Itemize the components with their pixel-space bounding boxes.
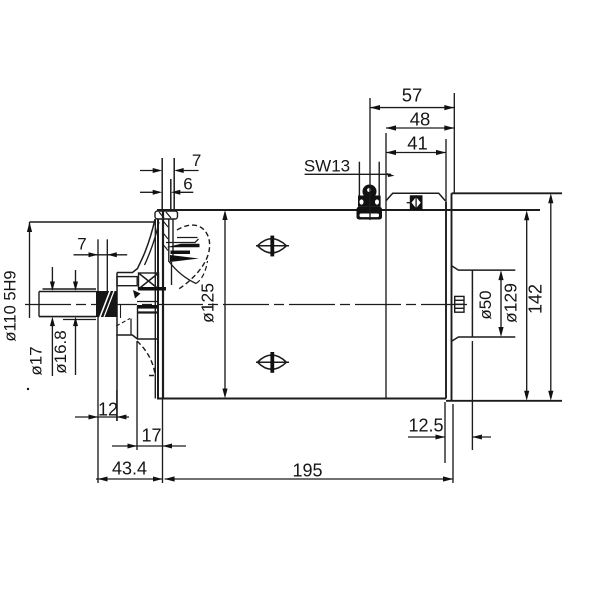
centerline main axis: [25, 304, 473, 306]
threaded block: [96, 291, 117, 317]
flange plate right face: [116, 273, 118, 422]
terminal platform: [386, 193, 445, 200]
dim ø129: [524, 210, 529, 401]
dim 57: [370, 93, 454, 220]
dim 41: [386, 139, 446, 202]
svg-text:57: 57: [402, 85, 423, 106]
bearing seat at body entry: [137, 301, 157, 303]
ø50 boss outline: [452, 266, 515, 270]
key on shaft: [43, 288, 97, 290]
shaft left: [39, 291, 96, 293]
hub step box: [117, 277, 137, 286]
svg-text:ø129: ø129: [501, 283, 521, 323]
hub bore lines: [137, 306, 139, 339]
dim 12.5: [408, 341, 491, 463]
dim 7 left key: [74, 239, 128, 291]
svg-text:12.5: 12.5: [408, 416, 443, 436]
dim 43.4 bottom: [96, 399, 163, 484]
SW13 leader: [305, 173, 391, 175]
svg-text:41: 41: [407, 133, 428, 154]
svg-text:17: 17: [141, 426, 161, 446]
brush bars inside: [177, 237, 198, 239]
dim 195 bottom: [165, 404, 453, 483]
svg-text:ø125: ø125: [198, 283, 218, 323]
dim ø17: [50, 267, 55, 376]
dim ø110 5H9: [27, 222, 32, 318]
bell housing top box: [155, 211, 178, 219]
dim 17 bottom: [112, 341, 186, 450]
phantom flange corner arc: [177, 225, 210, 289]
flange plate top edge + ext: [30, 221, 156, 223]
svg-text:ø110 5H9: ø110 5H9: [2, 270, 20, 341]
dim 6 top: [140, 190, 193, 195]
body right edge joint: [445, 202, 447, 399]
svg-text:7: 7: [77, 235, 86, 254]
terminal stud and nuts SW13: [357, 162, 383, 220]
bell outer profile left: [117, 219, 155, 273]
dim 12 bottom: [75, 317, 129, 483]
screw on platform: [407, 195, 423, 210]
slot on bell top: [161, 158, 163, 210]
svg-text:12: 12: [98, 400, 118, 420]
svg-text:195: 195: [292, 461, 322, 481]
bell bottom outline: [116, 335, 158, 339]
shaft threaded stub right: [455, 296, 464, 312]
dim ø50: [498, 270, 503, 337]
svg-text:ø16.8: ø16.8: [51, 330, 70, 373]
svg-text:48: 48: [410, 109, 431, 130]
svg-text:7: 7: [192, 151, 201, 170]
svg-text:ø17: ø17: [27, 346, 46, 375]
svg-text:SW13: SW13: [304, 157, 350, 176]
bolt symbol top: [256, 236, 289, 257]
dim 142: [548, 193, 553, 400]
leader arrow at bearing: [133, 290, 141, 299]
svg-text:142: 142: [526, 284, 546, 314]
right end housing ø142 flange: [452, 192, 563, 194]
motor body ø125: [157, 209, 540, 211]
bearing box section: [139, 273, 159, 289]
stray dot: [27, 388, 29, 390]
svg-text:6: 6: [183, 175, 192, 194]
bolt symbol bottom: [256, 352, 289, 373]
bell inner wall: [145, 222, 160, 265]
svg-text:ø50: ø50: [476, 290, 495, 319]
dim ø16.8: [73, 270, 78, 375]
phantom arc lower corner: [137, 341, 157, 376]
dim ø125: [222, 210, 227, 399]
dim 7 top: [140, 168, 199, 173]
svg-text:43.4: 43.4: [112, 459, 147, 479]
dim 48: [386, 125, 454, 397]
